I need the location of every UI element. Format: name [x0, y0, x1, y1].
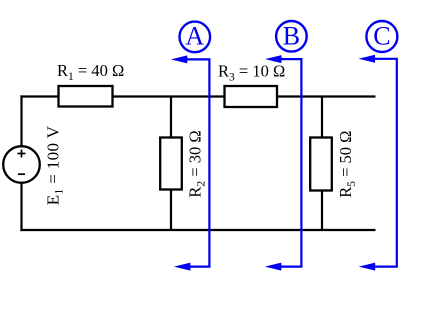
resistor R3	[225, 86, 278, 107]
E1 minus sign	[18, 173, 25, 175]
wire left vertical lower	[20, 183, 22, 232]
cut line A top arrowhead	[171, 55, 188, 63]
svg-text:A: A	[185, 22, 204, 51]
cut line C bottom arrowhead	[359, 263, 376, 271]
wire top-right segment	[276, 95, 376, 97]
wire bottom	[20, 229, 375, 231]
wire top-left segment	[20, 95, 59, 97]
svg-text:R3 = 10 Ω: R3 = 10 Ω	[218, 62, 285, 84]
wire left vertical upper	[20, 95, 22, 147]
E1 plus sign	[18, 150, 26, 158]
svg-text:R2 = 30 Ω: R2 = 30 Ω	[186, 130, 208, 197]
wire R2 vertical upper	[170, 97, 172, 139]
cut line B bottom arrowhead	[265, 263, 282, 271]
svg-text:C: C	[373, 22, 390, 51]
resistor R2	[160, 138, 182, 190]
node A circle	[180, 22, 211, 53]
cut line B top arrowhead	[265, 55, 282, 63]
cut line C wire	[371, 59, 397, 267]
cut line A bottom arrowhead	[174, 263, 191, 271]
node B circle	[276, 21, 307, 52]
node C circle	[366, 21, 397, 52]
resistor R1	[59, 86, 113, 107]
svg-text:B: B	[283, 22, 300, 51]
wire top-middle segment	[112, 95, 225, 97]
wire R5 vertical upper	[321, 97, 323, 139]
wire R2 vertical lower	[170, 189, 172, 230]
wire R5 vertical lower	[321, 190, 323, 230]
svg-text:R1 = 40 Ω: R1 = 40 Ω	[57, 61, 124, 83]
cut line A wire	[183, 59, 209, 266]
cut line B wire	[277, 59, 301, 267]
voltage source E1 circle	[3, 146, 40, 183]
resistor R5	[310, 138, 332, 191]
svg-text:E1 = 100 V: E1 = 100 V	[43, 125, 65, 205]
cut line C top arrowhead	[359, 55, 376, 63]
svg-text:R5 = 50 Ω: R5 = 50 Ω	[336, 131, 358, 198]
